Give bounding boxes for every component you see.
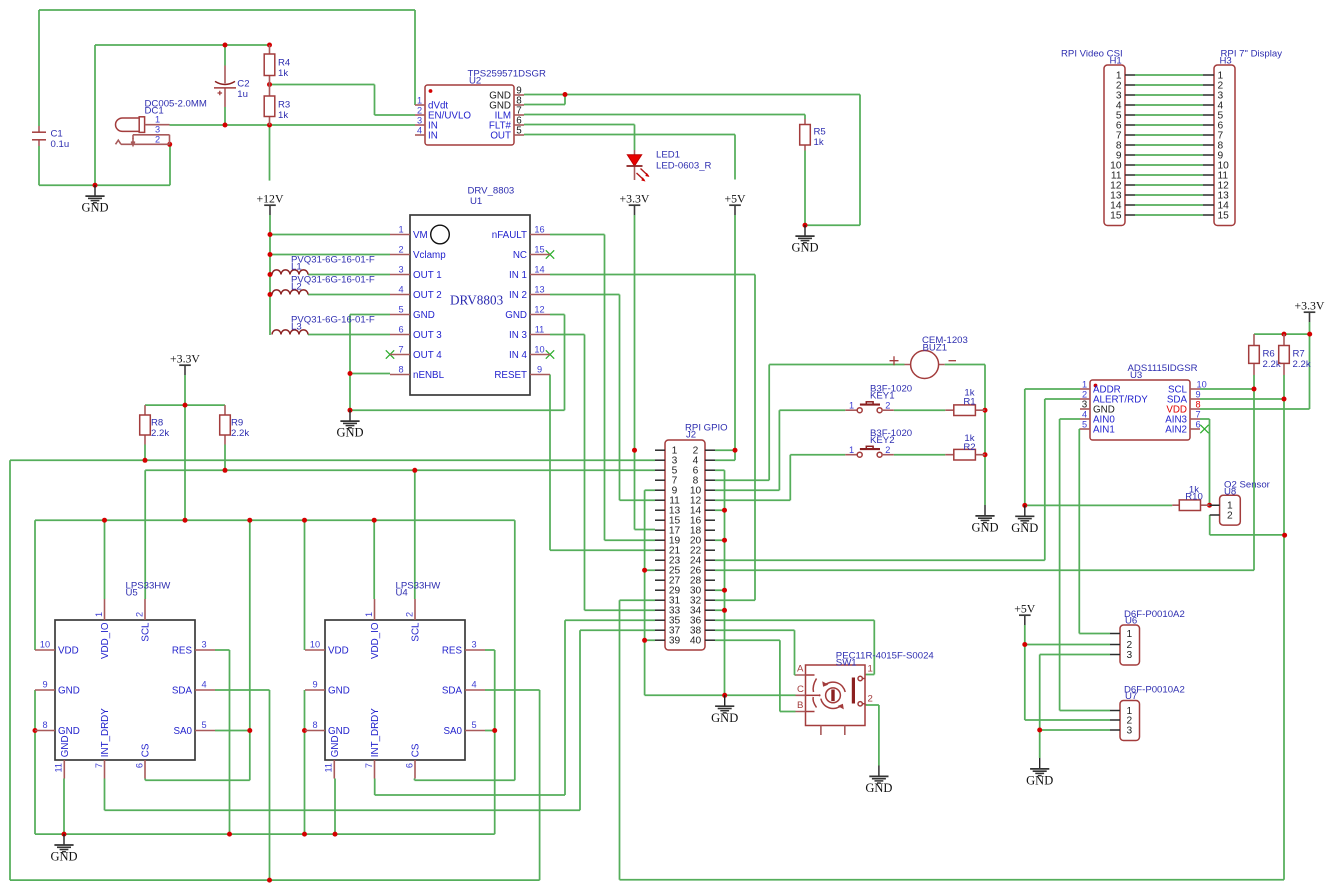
U2 pin 2 EN/UVLO	[415, 114, 425, 116]
H1 pin 14	[1125, 204, 1135, 206]
svg-text:C: C	[797, 684, 804, 695]
wire U4 SA0 tap	[485, 730, 495, 732]
wire H1-H3 pin 7	[1135, 134, 1203, 136]
J2 pin 29	[655, 589, 665, 591]
svg-text:IN 3: IN 3	[509, 330, 528, 341]
wire IN1 to J2 pin32	[550, 275, 755, 601]
inductor L1 PVQ31-6G-16-01-F	[272, 255, 375, 275]
H3 pin 2	[1203, 84, 1214, 86]
U4 pin 8 GND	[305, 730, 325, 732]
svg-text:RESET: RESET	[494, 370, 527, 381]
wire H1-H3 pin 12	[1135, 184, 1203, 186]
junction (1254,389)	[1252, 387, 1257, 392]
resistor R4	[264, 54, 291, 79]
junction (270,294.5)	[268, 292, 273, 297]
wire Vclamp row	[270, 254, 390, 256]
U1 pin 4 OUT 2	[390, 294, 410, 296]
wire buzzer plus to J2 pin8	[715, 365, 905, 481]
J2 pin 14	[705, 509, 715, 511]
svg-text:9: 9	[1196, 390, 1201, 400]
wire U3 VDD to +3.3V	[1200, 322, 1310, 409]
junction (270,274.5)	[268, 272, 273, 277]
U4 pin 2 SCL	[414, 599, 416, 620]
svg-text:U1: U1	[470, 196, 482, 207]
J2 pin 7	[655, 479, 665, 481]
U1 pin 16 nFAULT	[530, 234, 550, 236]
J2 pin 24	[705, 559, 715, 561]
U2 pin 9 GND	[514, 94, 524, 96]
J2 pin 39	[655, 639, 665, 641]
wire J2 pin36 to SW1 1	[715, 620, 874, 674]
U4 pin 6 CS	[414, 760, 416, 779]
U4 pin 11 GND	[333, 760, 335, 779]
junction (229.5,834.1)	[227, 832, 232, 837]
U6 pin 2	[1110, 644, 1120, 646]
wire U4 SCL drop	[414, 470, 416, 599]
H1 pin 9	[1125, 154, 1135, 156]
wire nFAULT to J2 pin19	[550, 235, 655, 541]
U3 pin 7 AIN3	[1190, 418, 1200, 420]
wire H1-H3 pin 6	[1135, 124, 1203, 126]
svg-text:3: 3	[201, 640, 206, 650]
U3 pin 10 SCL	[1190, 388, 1200, 390]
U5 pin 8 GND	[35, 730, 55, 732]
svg-text:15: 15	[1218, 211, 1230, 222]
svg-text:OUT 3: OUT 3	[413, 330, 442, 341]
svg-text:7: 7	[364, 763, 374, 768]
svg-text:2: 2	[1082, 390, 1087, 400]
svg-text:4: 4	[1082, 410, 1087, 420]
svg-text:1: 1	[868, 664, 873, 675]
wire J2 right GND chain	[715, 470, 725, 695]
J2 pin 34	[705, 609, 715, 611]
junction (724.7,695.3)	[722, 693, 727, 698]
svg-text:RES: RES	[172, 645, 193, 656]
wire U2 pin8 GND jog	[524, 95, 565, 105]
junction (185,405.1)	[183, 403, 188, 408]
svg-text:L2: L2	[291, 282, 302, 293]
svg-text:+3.3V: +3.3V	[620, 192, 650, 206]
wire R5 bottom to GND	[804, 151, 806, 226]
junction (805,225.2)	[803, 223, 808, 228]
svg-text:SA0: SA0	[173, 726, 192, 737]
power +3.3V	[170, 352, 200, 375]
U5 pin 11 GND	[63, 760, 65, 779]
junction (185,520.2)	[183, 518, 188, 523]
U2 pin 4 IN	[415, 134, 425, 136]
svg-text:VDD: VDD	[328, 645, 349, 656]
svg-text:6: 6	[398, 325, 403, 335]
U2 pin 5 OUT	[514, 134, 524, 136]
svg-text:8: 8	[398, 365, 403, 375]
J2 pin 13	[655, 509, 665, 511]
capacitor C1	[32, 129, 69, 151]
svg-text:GND: GND	[328, 726, 350, 737]
svg-text:9: 9	[537, 365, 542, 375]
wire buzzer minus to GND	[945, 365, 985, 506]
wire ADDR to GND node	[1025, 389, 1080, 505]
J2 pin 10	[705, 489, 715, 491]
wire U4 pin11 drop	[334, 779, 336, 835]
wire AIN0 to U7 pin1	[1060, 419, 1110, 711]
wire H1-H3 pin 15	[1135, 214, 1203, 216]
J2 pin 1	[655, 449, 665, 451]
junction (269.5,880.1)	[267, 878, 272, 883]
svg-text:PVQ31-6G-16-01-F: PVQ31-6G-16-01-F	[291, 255, 375, 266]
svg-text:CS: CS	[411, 743, 422, 757]
U3 pin 1 ADDR	[1080, 388, 1090, 390]
U2 pin 7 ILM	[514, 114, 524, 116]
R7 stubs	[1283, 334, 1285, 375]
svg-text:15: 15	[1110, 211, 1122, 222]
ground	[50, 834, 77, 864]
wire C2 bottom drop	[224, 107, 226, 125]
svg-text:5: 5	[1082, 420, 1087, 430]
svg-text:B: B	[797, 700, 803, 711]
svg-text:DC1: DC1	[145, 106, 164, 117]
U1 pin 10 IN 4	[530, 354, 550, 356]
svg-text:10: 10	[534, 345, 544, 355]
power +3.3V	[620, 192, 650, 215]
H3 pin 11	[1203, 174, 1214, 176]
svg-text:R10: R10	[1185, 491, 1203, 502]
wire H1-H3 pin 11	[1135, 174, 1203, 176]
H1 pin 6	[1125, 124, 1135, 126]
U3 pin 8 VDD	[1190, 408, 1200, 410]
svg-text:10: 10	[1197, 380, 1207, 390]
connector DC1 (DC005-2.0MM barrel jack)	[116, 99, 207, 146]
power +3.3V	[1295, 299, 1325, 322]
svg-text:11: 11	[535, 325, 545, 335]
IC U1 DRV8803	[390, 186, 550, 395]
wire H1-H3 pin 9	[1135, 154, 1203, 156]
svg-text:4: 4	[201, 680, 206, 690]
R8 stubs	[144, 405, 146, 444]
svg-text:SCL: SCL	[411, 622, 422, 642]
switch SW1 PEC11R-4015F-S0024 rotary encoder	[796, 651, 935, 736]
U1 pin 2 Vclamp	[390, 254, 410, 256]
wire U2 FLT# to LED	[524, 125, 635, 151]
svg-text:INT_DRDY: INT_DRDY	[370, 708, 381, 757]
svg-text:L3: L3	[291, 322, 302, 333]
svg-text:AIN2: AIN2	[1165, 424, 1187, 435]
U4 pin 7 INT_DRDY	[374, 760, 376, 779]
wire U5 INT_DRDY to J2 pin37	[105, 630, 656, 810]
svg-text:3: 3	[398, 265, 403, 275]
U6 pin 3	[1110, 654, 1120, 656]
svg-text:+3.3V: +3.3V	[1295, 299, 1325, 313]
ground	[791, 225, 818, 255]
H3 pin 1	[1203, 74, 1214, 76]
U5 pin 5 SA0	[195, 730, 215, 732]
J2 pin 11	[655, 499, 665, 501]
wire C1 top	[38, 10, 40, 126]
J2 pin 5	[655, 469, 665, 471]
U1 pin 14 IN 1	[530, 274, 550, 276]
J2 pin 33	[655, 609, 665, 611]
wire U4 CS riser	[415, 520, 515, 780]
junction (1284.6,535.2)	[1282, 533, 1287, 538]
svg-text:U5: U5	[126, 588, 138, 599]
svg-text:2: 2	[417, 106, 422, 116]
svg-text:2: 2	[868, 694, 873, 705]
svg-text:3: 3	[471, 640, 476, 650]
junction (1024.8,644.5)	[1022, 642, 1027, 647]
svg-text:1k: 1k	[278, 68, 288, 79]
wire IN3 to J2 pin33	[550, 335, 655, 611]
svg-text:GND: GND	[505, 310, 527, 321]
power +5V	[724, 192, 746, 215]
U4 pin 10 VDD	[305, 649, 325, 651]
svg-text:IN 1: IN 1	[509, 270, 527, 281]
wire U5 SCL drop	[144, 470, 146, 599]
svg-text:1: 1	[1082, 380, 1087, 390]
svg-text:AIN1: AIN1	[1093, 424, 1115, 435]
svg-text:PVQ31-6G-16-01-F: PVQ31-6G-16-01-F	[291, 315, 375, 326]
junction (95,185.2)	[93, 183, 98, 188]
J2 pin 22	[705, 549, 715, 551]
U1 pin 12 GND	[530, 314, 550, 316]
junction (269.5,84.5)	[267, 82, 272, 87]
H1 pin 2	[1125, 84, 1135, 86]
svg-text:IN 2: IN 2	[509, 290, 527, 301]
H3 pin 4	[1203, 104, 1214, 106]
svg-text:A: A	[797, 664, 804, 675]
U5 pin 9 GND	[35, 689, 55, 691]
J2 pin 28	[705, 579, 715, 581]
H1 pin 7	[1125, 134, 1135, 136]
svg-text:7: 7	[94, 763, 104, 768]
switch KEY1 B3F-1020	[845, 384, 912, 413]
svg-text:39: 39	[669, 636, 681, 647]
svg-text:11: 11	[54, 763, 64, 773]
junction (335,834.1)	[333, 832, 338, 837]
svg-text:9: 9	[42, 680, 47, 690]
svg-text:C1: C1	[51, 129, 63, 140]
svg-text:SCL: SCL	[141, 622, 152, 642]
junction (1209.5,505.2)	[1207, 503, 1212, 508]
svg-text:NC: NC	[513, 250, 527, 261]
junction (634.5,450.2)	[632, 448, 637, 453]
svg-text:DRV8803: DRV8803	[450, 293, 504, 308]
svg-text:OUT 4: OUT 4	[413, 350, 442, 361]
H3 pin 7	[1203, 134, 1214, 136]
J2 pin 9	[655, 489, 665, 491]
ground	[971, 505, 998, 535]
wire +12V top rail	[39, 10, 415, 105]
wire U5 VDD	[34, 520, 36, 650]
junction (145,460.3)	[143, 458, 148, 463]
svg-text:+5V: +5V	[724, 192, 746, 206]
wire H1-H3 pin 5	[1135, 114, 1203, 116]
J2 pin 27	[655, 579, 665, 581]
H1 pin 8	[1125, 144, 1135, 146]
resistor R6	[1249, 346, 1281, 370]
svg-text:VDD_IO: VDD_IO	[100, 622, 111, 659]
svg-text:+3.3V: +3.3V	[170, 352, 200, 366]
wire J2 left GND chain	[645, 490, 655, 695]
resistor R5	[800, 125, 826, 148]
wire H1-H3 pin 14	[1135, 204, 1203, 206]
svg-text:6: 6	[134, 763, 144, 768]
junction (304.5,730.5)	[302, 728, 307, 733]
H1 pin 3	[1125, 94, 1135, 96]
wire J2 pin26 SCL net	[715, 375, 1254, 570]
J2 pin 31	[655, 599, 665, 601]
J2 pin 38	[705, 629, 715, 631]
svg-text:INT_DRDY: INT_DRDY	[100, 708, 111, 757]
svg-text:U6: U6	[1125, 616, 1137, 627]
U7 pin 1	[1110, 710, 1120, 712]
svg-text:2: 2	[404, 612, 414, 617]
wire RESET to J2 pin21	[550, 375, 655, 551]
ground	[336, 410, 363, 440]
U3 pin 4 AIN0	[1080, 418, 1090, 420]
junction (1039.7,730)	[1037, 728, 1042, 733]
wire R8 R9 top bar	[145, 404, 225, 406]
svg-text:1u: 1u	[237, 89, 248, 100]
wire SW1 pin2 to GND	[866, 705, 879, 766]
svg-text:10: 10	[310, 640, 320, 650]
svg-text:12: 12	[534, 305, 544, 315]
R9 stubs	[224, 405, 226, 444]
svg-text:0.1u: 0.1u	[51, 139, 70, 150]
J2 pin 15	[655, 519, 665, 521]
svg-text:2.2k: 2.2k	[231, 428, 249, 439]
svg-text:5: 5	[201, 720, 206, 730]
wire U4 VDD	[304, 520, 306, 650]
H3 pin 8	[1203, 144, 1214, 146]
inductor L3 PVQ31-6G-16-01-F	[272, 315, 375, 335]
connector H3	[1203, 48, 1282, 225]
H1 pin 13	[1125, 194, 1135, 196]
inductor L2 PVQ31-6G-16-01-F	[272, 275, 375, 295]
wire R4-R3 mid to EN/UVLO	[270, 85, 416, 116]
svg-text:1: 1	[398, 225, 403, 235]
junction (644.6,570.2)	[642, 568, 647, 573]
wire L2 to OUT2	[308, 294, 390, 296]
svg-text:11: 11	[324, 763, 334, 773]
R10 stubs	[1172, 504, 1209, 506]
svg-text:KEY2: KEY2	[870, 435, 895, 446]
junction (724.5,540.2)	[722, 538, 727, 543]
LED LED1	[627, 150, 712, 182]
U3 pin 3 GND	[1080, 408, 1090, 410]
svg-text:4: 4	[471, 680, 476, 690]
H3 pin 5	[1203, 114, 1214, 116]
svg-text:U7: U7	[1125, 691, 1137, 702]
svg-text:Vclamp: Vclamp	[413, 250, 446, 261]
H1 pin 15	[1125, 214, 1135, 216]
svg-text:+5V: +5V	[1014, 602, 1036, 616]
svg-text:SA0: SA0	[443, 726, 462, 737]
junction (644.6,640.3)	[642, 638, 647, 643]
wire H1-H3 pin 10	[1135, 164, 1203, 166]
U5 pin 2 SCL	[144, 599, 146, 620]
svg-text:GND: GND	[60, 735, 71, 757]
J2 pin 40	[705, 639, 715, 641]
wire +12V flag to motor rail	[269, 215, 271, 335]
U3 pin 9 SDA	[1190, 398, 1200, 400]
svg-text:2: 2	[134, 612, 144, 617]
svg-text:5: 5	[516, 126, 522, 137]
svg-text:1k: 1k	[814, 137, 824, 148]
U1 pin 15 NC	[530, 254, 550, 256]
svg-text:3: 3	[1127, 726, 1133, 737]
junction (374.2,520.2)	[372, 518, 377, 523]
wire SCL row J2 pin5	[145, 469, 655, 471]
no-connect X	[1200, 425, 1208, 433]
U5 pin 3 RES	[195, 649, 215, 651]
J2 pin 20	[705, 539, 715, 541]
U1 pin 1 VM	[390, 234, 410, 236]
U3 pin 2 ALERT/RDY	[1080, 398, 1090, 400]
svg-text:4: 4	[398, 285, 403, 295]
svg-text:1: 1	[1127, 629, 1133, 640]
H3 pin 15	[1203, 214, 1214, 216]
junction (724.5,610.3)	[722, 608, 727, 613]
U2 pin 1 dVdt	[415, 104, 425, 106]
svg-text:3: 3	[417, 116, 422, 126]
svg-text:10: 10	[40, 640, 50, 650]
capacitor C2	[214, 78, 250, 100]
wire AIN3 to R10 node	[1200, 419, 1210, 505]
H3 pin 10	[1203, 164, 1214, 166]
H1 pin 10	[1125, 164, 1135, 166]
U1 pin 11 IN 3	[530, 334, 550, 336]
R4 stubs	[269, 45, 271, 85]
J2 pin 35	[655, 619, 665, 621]
switch KEY2 B3F-1020	[845, 428, 912, 457]
svg-text:+12V: +12V	[257, 192, 284, 206]
connector H1	[1061, 48, 1135, 225]
H1 pin 5	[1125, 114, 1135, 116]
buzzer BUZ1 CEM-1203	[890, 335, 968, 379]
wire C1 bottom to GND rail	[39, 144, 170, 185]
svg-text:2: 2	[398, 245, 403, 255]
junction (494.7,730.5)	[492, 728, 497, 733]
U1 pin 3 OUT 1	[390, 274, 410, 276]
U6 pin 1	[1110, 633, 1120, 635]
svg-text:LED-0603_R: LED-0603_R	[656, 161, 712, 172]
U1 pin 5 GND	[390, 314, 410, 316]
svg-text:1: 1	[417, 96, 422, 106]
svg-text:40: 40	[690, 636, 702, 647]
svg-text:2: 2	[885, 445, 890, 455]
J2 pin 37	[655, 629, 665, 631]
wire VM row	[270, 234, 390, 236]
J2 pin 25	[655, 569, 665, 571]
svg-text:13: 13	[534, 285, 544, 295]
junction (269.5,45)	[267, 43, 272, 48]
svg-text:3: 3	[155, 125, 160, 135]
wire R3 bottom to +12V flag	[269, 125, 271, 181]
svg-text:1: 1	[364, 612, 374, 617]
junction (985,454.7)	[983, 452, 988, 457]
R3 stubs	[269, 85, 271, 126]
junction (350,373.5)	[348, 371, 353, 376]
J2 pin 26	[705, 569, 715, 571]
svg-text:R1: R1	[963, 396, 975, 407]
resistor R3	[264, 96, 290, 121]
J2 pin 2	[705, 449, 715, 451]
R6 stubs	[1253, 334, 1255, 375]
resistor R2	[954, 433, 976, 460]
wire U2 OUT to +5V	[524, 135, 735, 180]
wire LPS GND rail	[35, 650, 495, 834]
wire U4 INT_DRDY to J2 pin35	[375, 620, 655, 795]
wire H1-H3 pin 1	[1135, 74, 1203, 76]
